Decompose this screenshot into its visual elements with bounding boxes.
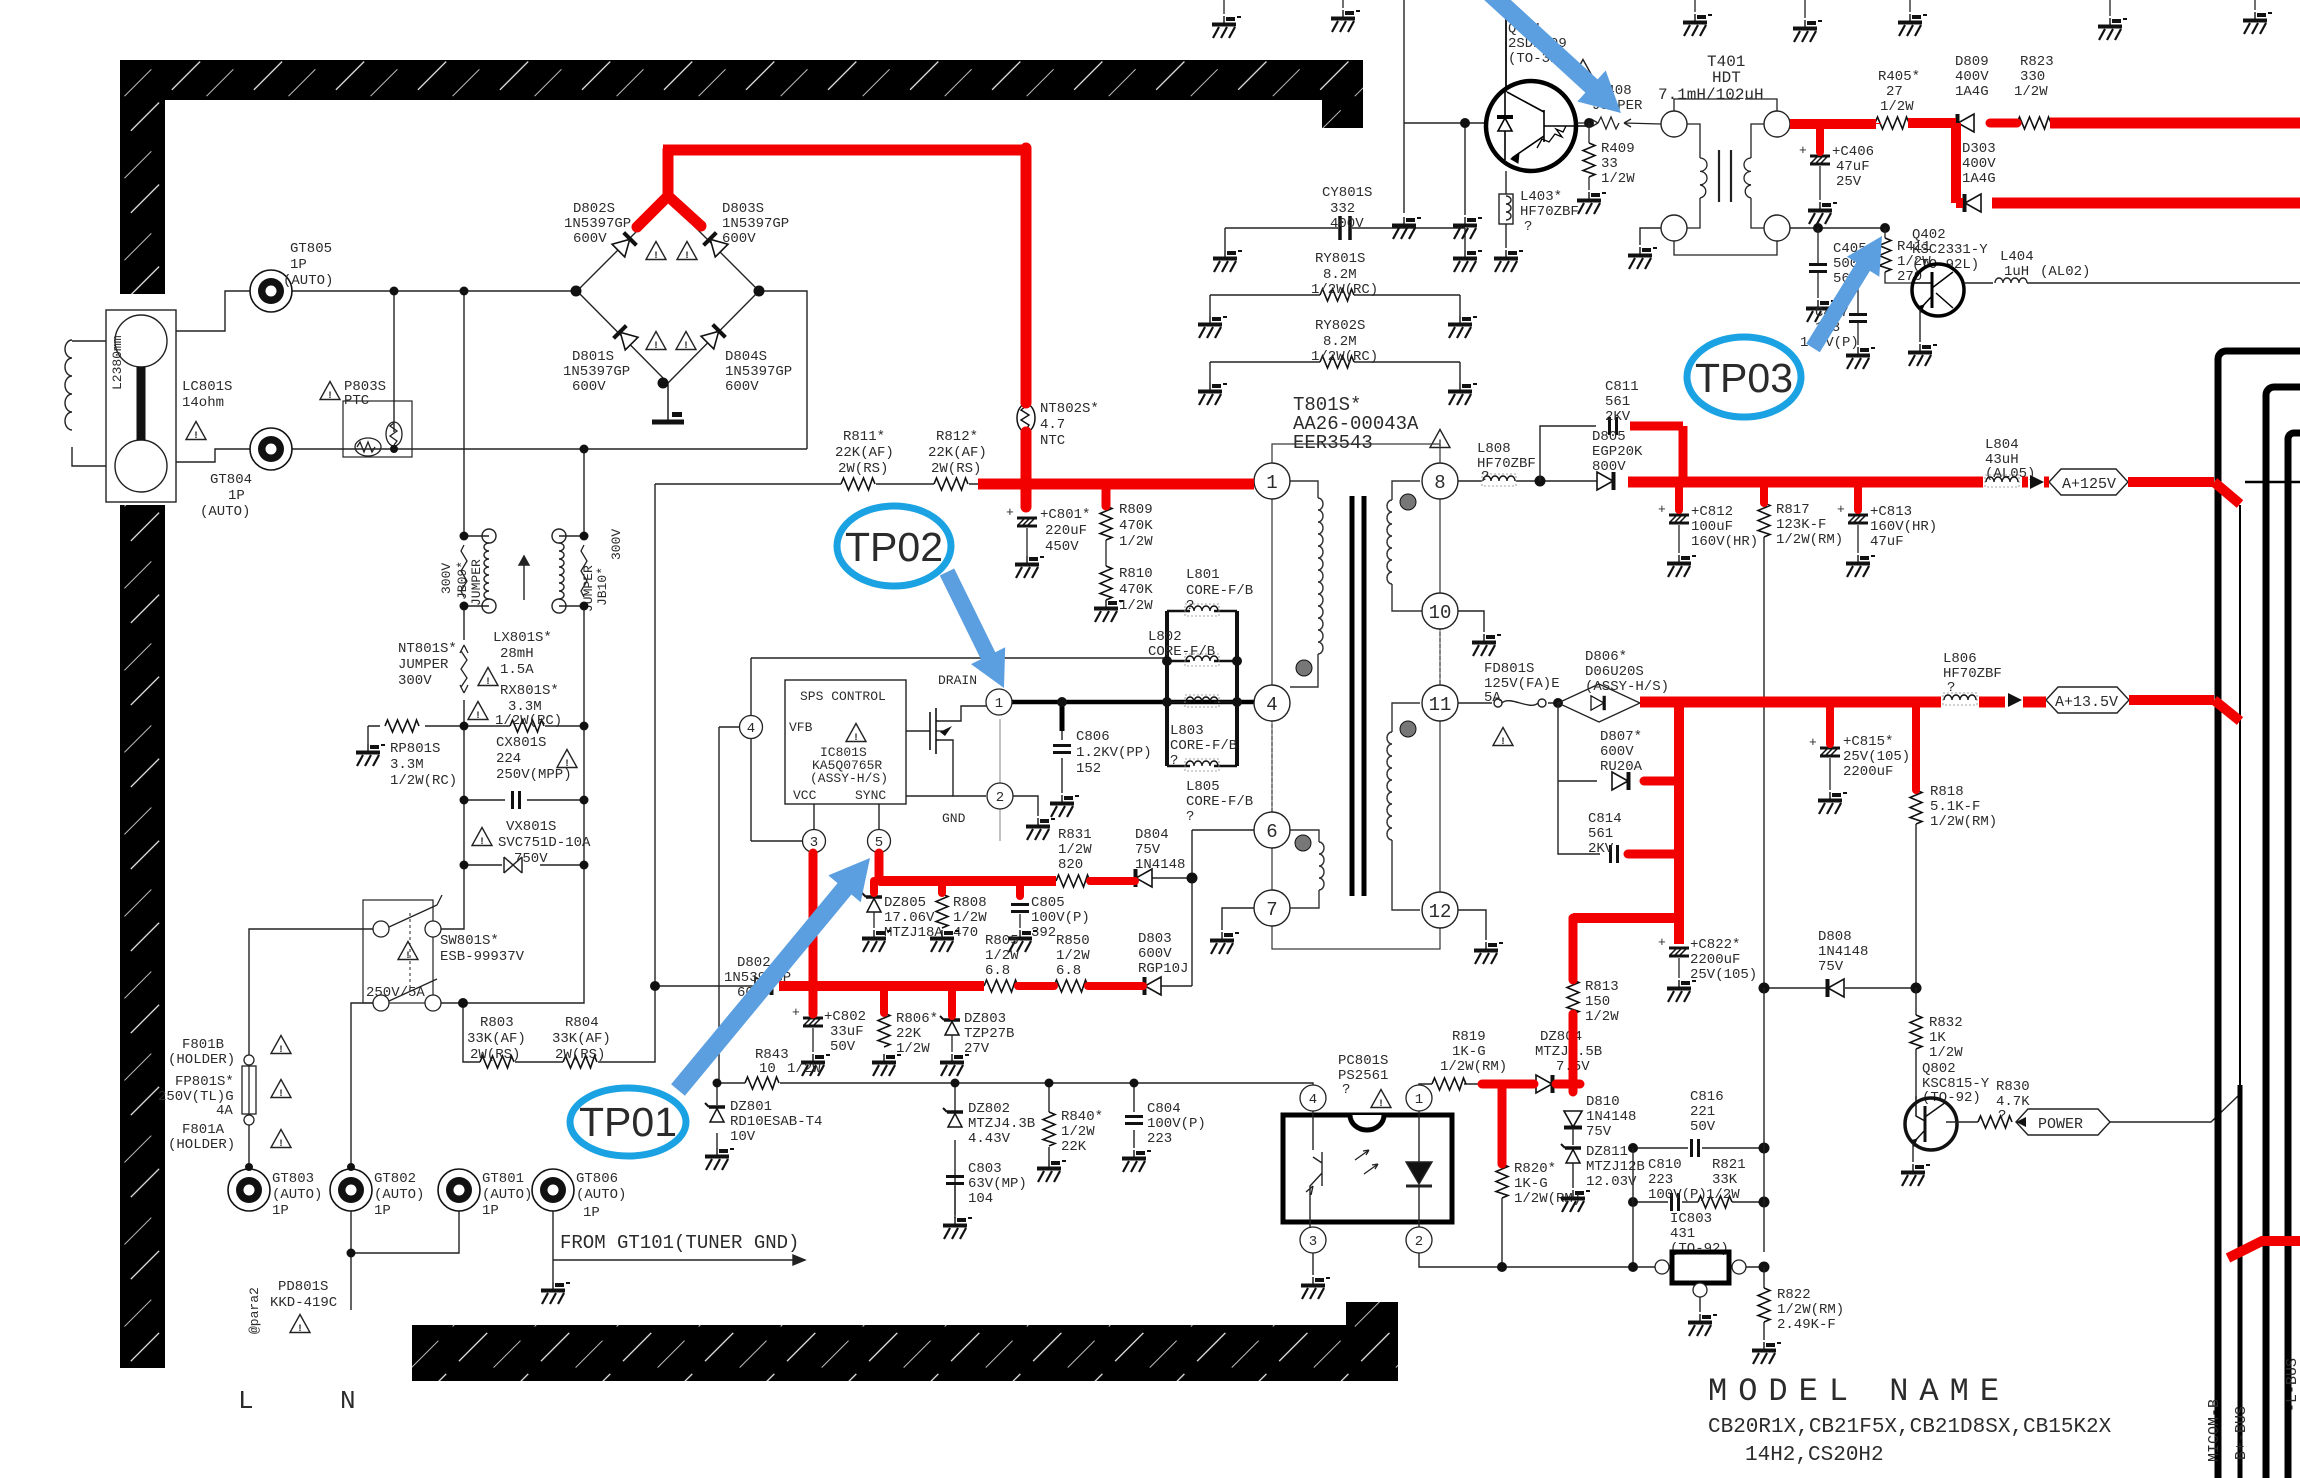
svg-text:-L-BUS: -L-BUS (2284, 1358, 2300, 1412)
ground L403 (1494, 250, 1523, 272)
svg-text:Q402: Q402 (1912, 227, 1946, 243)
svg-text:431: 431 (1670, 1226, 1695, 1242)
wire R803 R804 loop (463, 986, 655, 1062)
svg-text:LC801S: LC801S (182, 379, 232, 395)
svg-text:5A: 5A (1484, 690, 1501, 706)
svg-text:3: 3 (810, 835, 818, 851)
svg-text:(AUTO): (AUTO) (576, 1187, 626, 1203)
svg-text:R850: R850 (1056, 933, 1090, 949)
svg-text:300V: 300V (398, 673, 432, 689)
warning bridge 2 (677, 242, 697, 263)
svg-text:600V: 600V (572, 379, 606, 395)
junction Q401 left (1460, 118, 1470, 128)
junction C405 (1813, 223, 1823, 233)
svg-text:DZ803: DZ803 (964, 1011, 1006, 1027)
svg-text:470K: 470K (1119, 582, 1153, 598)
svg-text:SW801S*: SW801S* (440, 933, 499, 949)
transistor Q402 (1911, 264, 1964, 316)
svg-text:8.2M: 8.2M (1323, 334, 1357, 350)
resistor R810 (1100, 566, 1112, 600)
svg-text:GT806: GT806 (576, 1171, 618, 1187)
diode D803S (704, 233, 728, 257)
wire red R405 D809 link (1908, 118, 1956, 128)
zener DZ801 (705, 1103, 725, 1122)
wire fuse FD801S (1458, 702, 1558, 704)
svg-text:RP801S: RP801S (390, 741, 440, 757)
opto pin3 (1300, 1227, 1326, 1253)
junction CX ends (460, 796, 469, 805)
resistor R811 (841, 478, 875, 490)
junction C806 tap (1057, 697, 1067, 707)
svg-text:NT802S*: NT802S* (1040, 401, 1099, 417)
svg-text:FROM GT101(TUNER GND): FROM GT101(TUNER GND) (560, 1232, 799, 1254)
resistor R812 (934, 478, 968, 490)
transformer T401 (1674, 99, 1777, 255)
svg-text:6.8: 6.8 (985, 963, 1010, 979)
T401 pin circles (1661, 111, 1687, 137)
svg-text:(ASSY-H/S): (ASSY-H/S) (810, 771, 888, 786)
frame bar bottom (412, 1325, 1398, 1381)
node 1 drain (986, 689, 1012, 715)
junction pin8 line (1535, 476, 1546, 487)
wire D803 out (1161, 985, 1192, 987)
svg-text:D805: D805 (1592, 429, 1626, 445)
wire LX801S top link (464, 535, 584, 537)
svg-text:33K: 33K (1712, 1172, 1738, 1188)
wire node1 node2 internal (999, 719, 1001, 841)
svg-text:6: 6 (1266, 821, 1277, 843)
jumper NT801S (460, 645, 468, 693)
warning SW801S (398, 942, 418, 963)
pin 1 (1254, 463, 1290, 499)
wire red C812 stub (1675, 482, 1683, 510)
frame bar top (120, 60, 1363, 100)
inductor L801 (1167, 610, 1237, 613)
wire red T401 out (1790, 123, 1876, 124)
svg-text:R808: R808 (953, 895, 987, 911)
svg-text:820: 820 (1058, 857, 1083, 873)
inductor L804 (1985, 475, 2019, 487)
svg-text:1/2W(RC): 1/2W(RC) (495, 713, 562, 729)
diode D809 (1958, 114, 1975, 132)
wire LX801S bottom link (464, 605, 584, 607)
inductor L803 (1167, 701, 1237, 704)
svg-text:450V: 450V (1045, 539, 1079, 555)
svg-text:L2380mm: L2380mm (110, 335, 125, 390)
svg-text:1/2W(RC): 1/2W(RC) (1311, 282, 1378, 298)
svg-text:400V: 400V (1330, 216, 1364, 232)
svg-text:4.7: 4.7 (1040, 417, 1065, 433)
svg-text:600V: 600V (722, 231, 756, 247)
IC803 pin left (1655, 1260, 1669, 1274)
svg-text:D809: D809 (1955, 54, 1989, 70)
connector GT806 (532, 1169, 574, 1211)
connector GT803 (228, 1169, 270, 1211)
junction IC803 right (1759, 1262, 1770, 1273)
svg-text:L805: L805 (1186, 779, 1220, 795)
svg-text:1/2W: 1/2W (787, 1061, 821, 1077)
svg-text:1/2W: 1/2W (896, 1041, 930, 1057)
svg-text:+C406: +C406 (1832, 144, 1874, 160)
ellipse TP03 (1687, 337, 1801, 417)
warning bridge 3 (646, 332, 666, 353)
ground RP801S (356, 744, 385, 766)
transformer sec coil 8-10 (1387, 500, 1392, 584)
diode DZ804 (1536, 1075, 1553, 1093)
wire red R805 R850 link (1018, 982, 1054, 990)
svg-text:14H2,CS20H2: 14H2,CS20H2 (1745, 1444, 1884, 1467)
svg-text:1/2W(RC): 1/2W(RC) (1311, 349, 1378, 365)
svg-text:IC803: IC803 (1670, 1211, 1712, 1227)
wire C804 drop (1133, 1083, 1135, 1148)
capacitor C812 (1658, 502, 1689, 523)
svg-text:3: 3 (1309, 1234, 1317, 1250)
ground top row 1 (1223, 0, 1225, 14)
wire mosfet gate (906, 730, 930, 732)
svg-text:2: 2 (1415, 1234, 1423, 1250)
wire red R823 out (2050, 118, 2300, 129)
svg-text:1N5397GP: 1N5397GP (722, 216, 789, 232)
svg-text:1P: 1P (583, 1205, 600, 1221)
zener DZ803 (940, 1016, 960, 1035)
junction top AC at P803S (390, 287, 399, 296)
jumper JB10 (581, 545, 587, 597)
ground C405 (1806, 300, 1835, 322)
polarity dot aux (1295, 835, 1311, 851)
ground top row 2 (1342, 0, 1344, 8)
IC803 box (1672, 1252, 1729, 1283)
svg-text:1/2W: 1/2W (1601, 171, 1635, 187)
wire C810 row (1633, 1201, 1764, 1203)
svg-text:GND: GND (942, 811, 966, 826)
wire pin7 gnd (1222, 908, 1254, 930)
ground top row 5 (1804, 0, 1806, 18)
junction C816 right (1759, 1143, 1770, 1154)
svg-text:470: 470 (953, 925, 978, 941)
pin 7 (1254, 890, 1290, 926)
junction R411 (1880, 223, 1890, 233)
wire pin3 row (751, 840, 803, 842)
svg-text:D802S: D802S (573, 201, 615, 217)
switch SW801S box (363, 900, 433, 1003)
ground R806 (872, 1054, 901, 1076)
inductor L input coil (65, 340, 72, 430)
svg-text:27: 27 (1886, 84, 1903, 100)
svg-text:300V: 300V (609, 529, 624, 560)
capacitor C814 (1611, 845, 1618, 863)
ellipse TP02 (837, 506, 951, 586)
svg-text:1A4G: 1A4G (1955, 84, 1989, 100)
wire Q402 emitter gnd (1919, 309, 1921, 342)
connector GT801 (438, 1169, 480, 1211)
junction D808 right (1911, 983, 1922, 994)
svg-text:22K: 22K (1061, 1139, 1087, 1155)
svg-text:1/2W: 1/2W (1706, 1187, 1740, 1203)
transistor Q401 (1486, 81, 1586, 171)
junction C810 left (1628, 1197, 1638, 1207)
svg-text:L804: L804 (1985, 437, 2019, 453)
wire Q802 emitter gnd (1912, 1143, 1914, 1162)
wire D808 row (1764, 987, 1916, 989)
svg-text:R405*: R405* (1878, 69, 1920, 85)
svg-text:(AUTO): (AUTO) (374, 1187, 424, 1203)
wire R840 drop (1048, 1083, 1050, 1160)
wire R818 down (1915, 824, 1917, 988)
ground CY right (1453, 250, 1482, 272)
ground Q802 (1901, 1164, 1930, 1186)
svg-text:1/2W: 1/2W (1061, 1124, 1095, 1140)
resistor RY802S (1210, 362, 1460, 383)
svg-text:R830: R830 (1996, 1079, 2030, 1095)
svg-text:1/2W(RM): 1/2W(RM) (1930, 814, 1997, 830)
svg-text:1.5A: 1.5A (500, 662, 534, 678)
svg-text:4: 4 (1309, 1092, 1317, 1108)
ground DZ801 (705, 1148, 734, 1170)
jumper R408 (1577, 117, 1661, 129)
svg-text:(HOLDER): (HOLDER) (168, 1052, 235, 1068)
svg-text:+C802: +C802 (824, 1009, 866, 1025)
svg-text:FD801S: FD801S (1484, 661, 1534, 677)
svg-text:33K(AF): 33K(AF) (552, 1031, 611, 1047)
wire red A+13.5V line (1640, 697, 2046, 708)
svg-text:L: L (238, 1386, 254, 1416)
resistor R817 (1758, 503, 1770, 537)
svg-text:?: ? (1481, 469, 1489, 485)
svg-text:100V(P): 100V(P) (1147, 1116, 1206, 1132)
ground R840 (1037, 1160, 1066, 1182)
svg-text:C806: C806 (1076, 729, 1110, 745)
svg-text:2KV: 2KV (1588, 841, 1614, 857)
wire IC803 bottom gnd (1699, 1297, 1701, 1312)
svg-text:1/2W: 1/2W (1056, 948, 1090, 964)
svg-text:2200uF: 2200uF (1843, 764, 1893, 780)
svg-text:EER3543: EER3543 (1293, 432, 1373, 454)
svg-text:VX801S: VX801S (506, 819, 556, 835)
svg-text:1N5397GP: 1N5397GP (725, 364, 792, 380)
resistor R409 (1583, 143, 1595, 177)
svg-text:47uF: 47uF (1870, 534, 1904, 550)
inductor L403 (1499, 171, 1513, 248)
svg-text:R810: R810 (1119, 566, 1153, 582)
ground top row 4 (1694, 0, 1696, 12)
svg-text:?: ? (1998, 1108, 2006, 1124)
ground top row 7 (2109, 0, 2111, 16)
junction C804 tap (1130, 1079, 1139, 1088)
svg-text:330: 330 (2020, 69, 2045, 85)
wire red R813 row (1573, 913, 1679, 923)
junction rails (1162, 656, 1172, 666)
svg-text:300V: 300V (439, 563, 454, 594)
wire red R806 stub (880, 986, 888, 1013)
svg-text:4A: 4A (216, 1103, 233, 1119)
resistor R819 (1432, 1078, 1466, 1090)
svg-text:SVC751D-10A: SVC751D-10A (498, 835, 591, 851)
resistor R806 (878, 1013, 890, 1047)
svg-text:1/2W(RM): 1/2W(RM) (1440, 1059, 1507, 1075)
svg-text:@para2: @para2 (247, 1287, 262, 1334)
svg-text:1/2W: 1/2W (1119, 534, 1153, 550)
wire pin1 opto to R819 (1419, 1084, 1482, 1085)
svg-text:RGP10J: RGP10J (1138, 961, 1188, 977)
ground C804 (1122, 1150, 1151, 1172)
svg-text:2200uF: 2200uF (1690, 952, 1740, 968)
flag POWER (2016, 1109, 2110, 1135)
svg-text:1: 1 (995, 696, 1003, 712)
svg-text:VCC: VCC (793, 788, 817, 803)
ground GT806 (541, 1282, 570, 1304)
svg-text:D802: D802 (737, 955, 771, 971)
wire pin4 top loop (751, 658, 1167, 841)
arrowhead tuner gnd (793, 1255, 805, 1265)
svg-text:+C813: +C813 (1870, 504, 1912, 520)
ground RY802S right (1448, 383, 1477, 405)
svg-text:D807*: D807* (1600, 729, 1642, 745)
svg-text:400V: 400V (1962, 156, 1996, 172)
svg-text:L404: L404 (2000, 249, 2034, 265)
wire red VCC pin3 (809, 853, 818, 1014)
inductor L808 (1482, 474, 1516, 486)
capacitor C405 (1809, 265, 1827, 272)
svg-text:CX801S: CX801S (496, 735, 546, 751)
arrow A125 (2030, 475, 2044, 489)
ground C407 (1846, 347, 1875, 369)
svg-text:1P: 1P (482, 1203, 499, 1219)
svg-text:25V(105): 25V(105) (1843, 749, 1910, 765)
svg-text:22K(AF): 22K(AF) (835, 445, 894, 461)
wire red D303 drop (1956, 123, 1963, 203)
bus line B3 (2288, 433, 2300, 1478)
diode D802 (755, 977, 772, 995)
svg-text:152: 152 (1076, 761, 1101, 777)
wire node2 gnd (1013, 796, 1038, 816)
warning FD801S (1493, 728, 1513, 749)
svg-text:R817: R817 (1776, 502, 1810, 518)
svg-text:NTC: NTC (1040, 433, 1065, 449)
resistor R813 (1567, 980, 1579, 1014)
svg-text:14ohm: 14ohm (182, 395, 224, 411)
wire pin3 stub (813, 804, 815, 830)
svg-text:2.49K-F: 2.49K-F (1777, 1317, 1836, 1333)
svg-text:RU20A: RU20A (1600, 759, 1643, 775)
wire DZ802 drop (954, 1083, 956, 1218)
inductor L802 (1167, 660, 1237, 663)
capacitor C801 (1006, 505, 1037, 526)
ground C406 (1808, 202, 1837, 224)
bus line B2 (2266, 387, 2300, 1478)
svg-text:CY801S: CY801S (1322, 185, 1372, 201)
wire red C814 link (1628, 850, 1679, 859)
svg-text:250V/5A: 250V/5A (366, 985, 425, 1001)
svg-text:R809: R809 (1119, 502, 1153, 518)
svg-text:VFB: VFB (789, 720, 813, 735)
svg-text:1/2W: 1/2W (1929, 1045, 1963, 1061)
mosfet Q IC801S (930, 708, 952, 754)
svg-text:RY801S: RY801S (1315, 251, 1365, 267)
wire pin8 out (1458, 480, 1597, 482)
svg-text:TP02: TP02 (845, 524, 943, 570)
wire D810 to DZ811 (1572, 1128, 1574, 1145)
svg-text:8.2M: 8.2M (1323, 267, 1357, 283)
pin 8 (1422, 463, 1458, 499)
svg-text:NT801S*: NT801S* (398, 641, 457, 657)
ground Q401 left2 (1453, 217, 1482, 239)
svg-text:75V: 75V (1586, 1124, 1612, 1140)
svg-text:B+-BUS: B+-BUS (2233, 1406, 2250, 1460)
svg-text:D06U20S: D06U20S (1585, 664, 1644, 680)
fuse FD801S (1494, 699, 1546, 707)
wire x655 vertical VFB column (655, 484, 755, 986)
wire VX801S row (464, 864, 584, 866)
svg-text:4: 4 (747, 721, 755, 737)
svg-text:PTC: PTC (344, 393, 369, 409)
svg-text:L806: L806 (1943, 651, 1977, 667)
svg-text:?: ? (1186, 598, 1194, 614)
blue arrow TP03 to node (1806, 236, 1882, 352)
svg-text:JB09*: JB09* (455, 561, 470, 600)
wire D807 branch (1558, 703, 1600, 854)
ground R808 (930, 930, 959, 952)
capacitor C811 (1610, 417, 1617, 435)
wire red R831 D804 link (1090, 877, 1135, 885)
svg-text:DZ802: DZ802 (968, 1101, 1010, 1117)
svg-text:5.1K-F: 5.1K-F (1930, 799, 1980, 815)
bus line B1 (2218, 351, 2300, 1478)
svg-text:JUMPER: JUMPER (398, 657, 449, 673)
junction D804 (1187, 873, 1198, 884)
svg-text:R812*: R812* (936, 429, 978, 445)
diode D303 (1965, 194, 1982, 212)
wire filter left column (433, 291, 464, 929)
wire Q802 collector row (1946, 1121, 1978, 1123)
svg-text:+C815*: +C815* (1843, 734, 1893, 750)
resistor R843 (745, 1077, 779, 1089)
wire red R808 stub (938, 881, 946, 893)
diode D807 (1612, 772, 1629, 790)
capacitor C802 (792, 1005, 823, 1026)
svg-text:1P: 1P (290, 257, 307, 273)
ground opto pin3 (1301, 1277, 1330, 1299)
svg-text:R806*: R806* (896, 1011, 938, 1027)
wire R820 down (1501, 1198, 1503, 1267)
svg-text:?: ? (1524, 219, 1532, 235)
pin 4 (1254, 685, 1290, 721)
svg-text:392: 392 (1031, 925, 1056, 941)
svg-text:1/2W: 1/2W (2014, 84, 2048, 100)
svg-text:R840*: R840* (1061, 1109, 1103, 1125)
svg-text:R832: R832 (1929, 1015, 1963, 1031)
opto phototransistor (1306, 1111, 1322, 1227)
svg-text:F801B: F801B (182, 1037, 224, 1053)
svg-text:C816: C816 (1690, 1089, 1724, 1105)
svg-text:D804: D804 (1135, 827, 1169, 843)
wire C816 row (1633, 1147, 1764, 1149)
svg-text:(AUTO): (AUTO) (482, 1187, 532, 1203)
ground C802 (801, 1054, 830, 1076)
svg-text:R813: R813 (1585, 979, 1619, 995)
wire bottom AC N line (176, 449, 807, 462)
blue arrow TP02 to drain (940, 569, 1005, 689)
frame bar left upper (120, 60, 165, 294)
svg-text:CORE-F/B: CORE-F/B (1170, 738, 1237, 754)
warning bridge 4 (676, 332, 696, 353)
svg-text:33K(AF): 33K(AF) (467, 1031, 526, 1047)
wire red DZ803 stub (948, 986, 956, 1016)
svg-text:(HOLDER): (HOLDER) (168, 1137, 235, 1153)
svg-text:2KV: 2KV (1605, 409, 1631, 425)
svg-text:1/2W: 1/2W (953, 910, 987, 926)
ground C812 (1667, 555, 1696, 577)
svg-text:1/2W: 1/2W (1880, 99, 1914, 115)
